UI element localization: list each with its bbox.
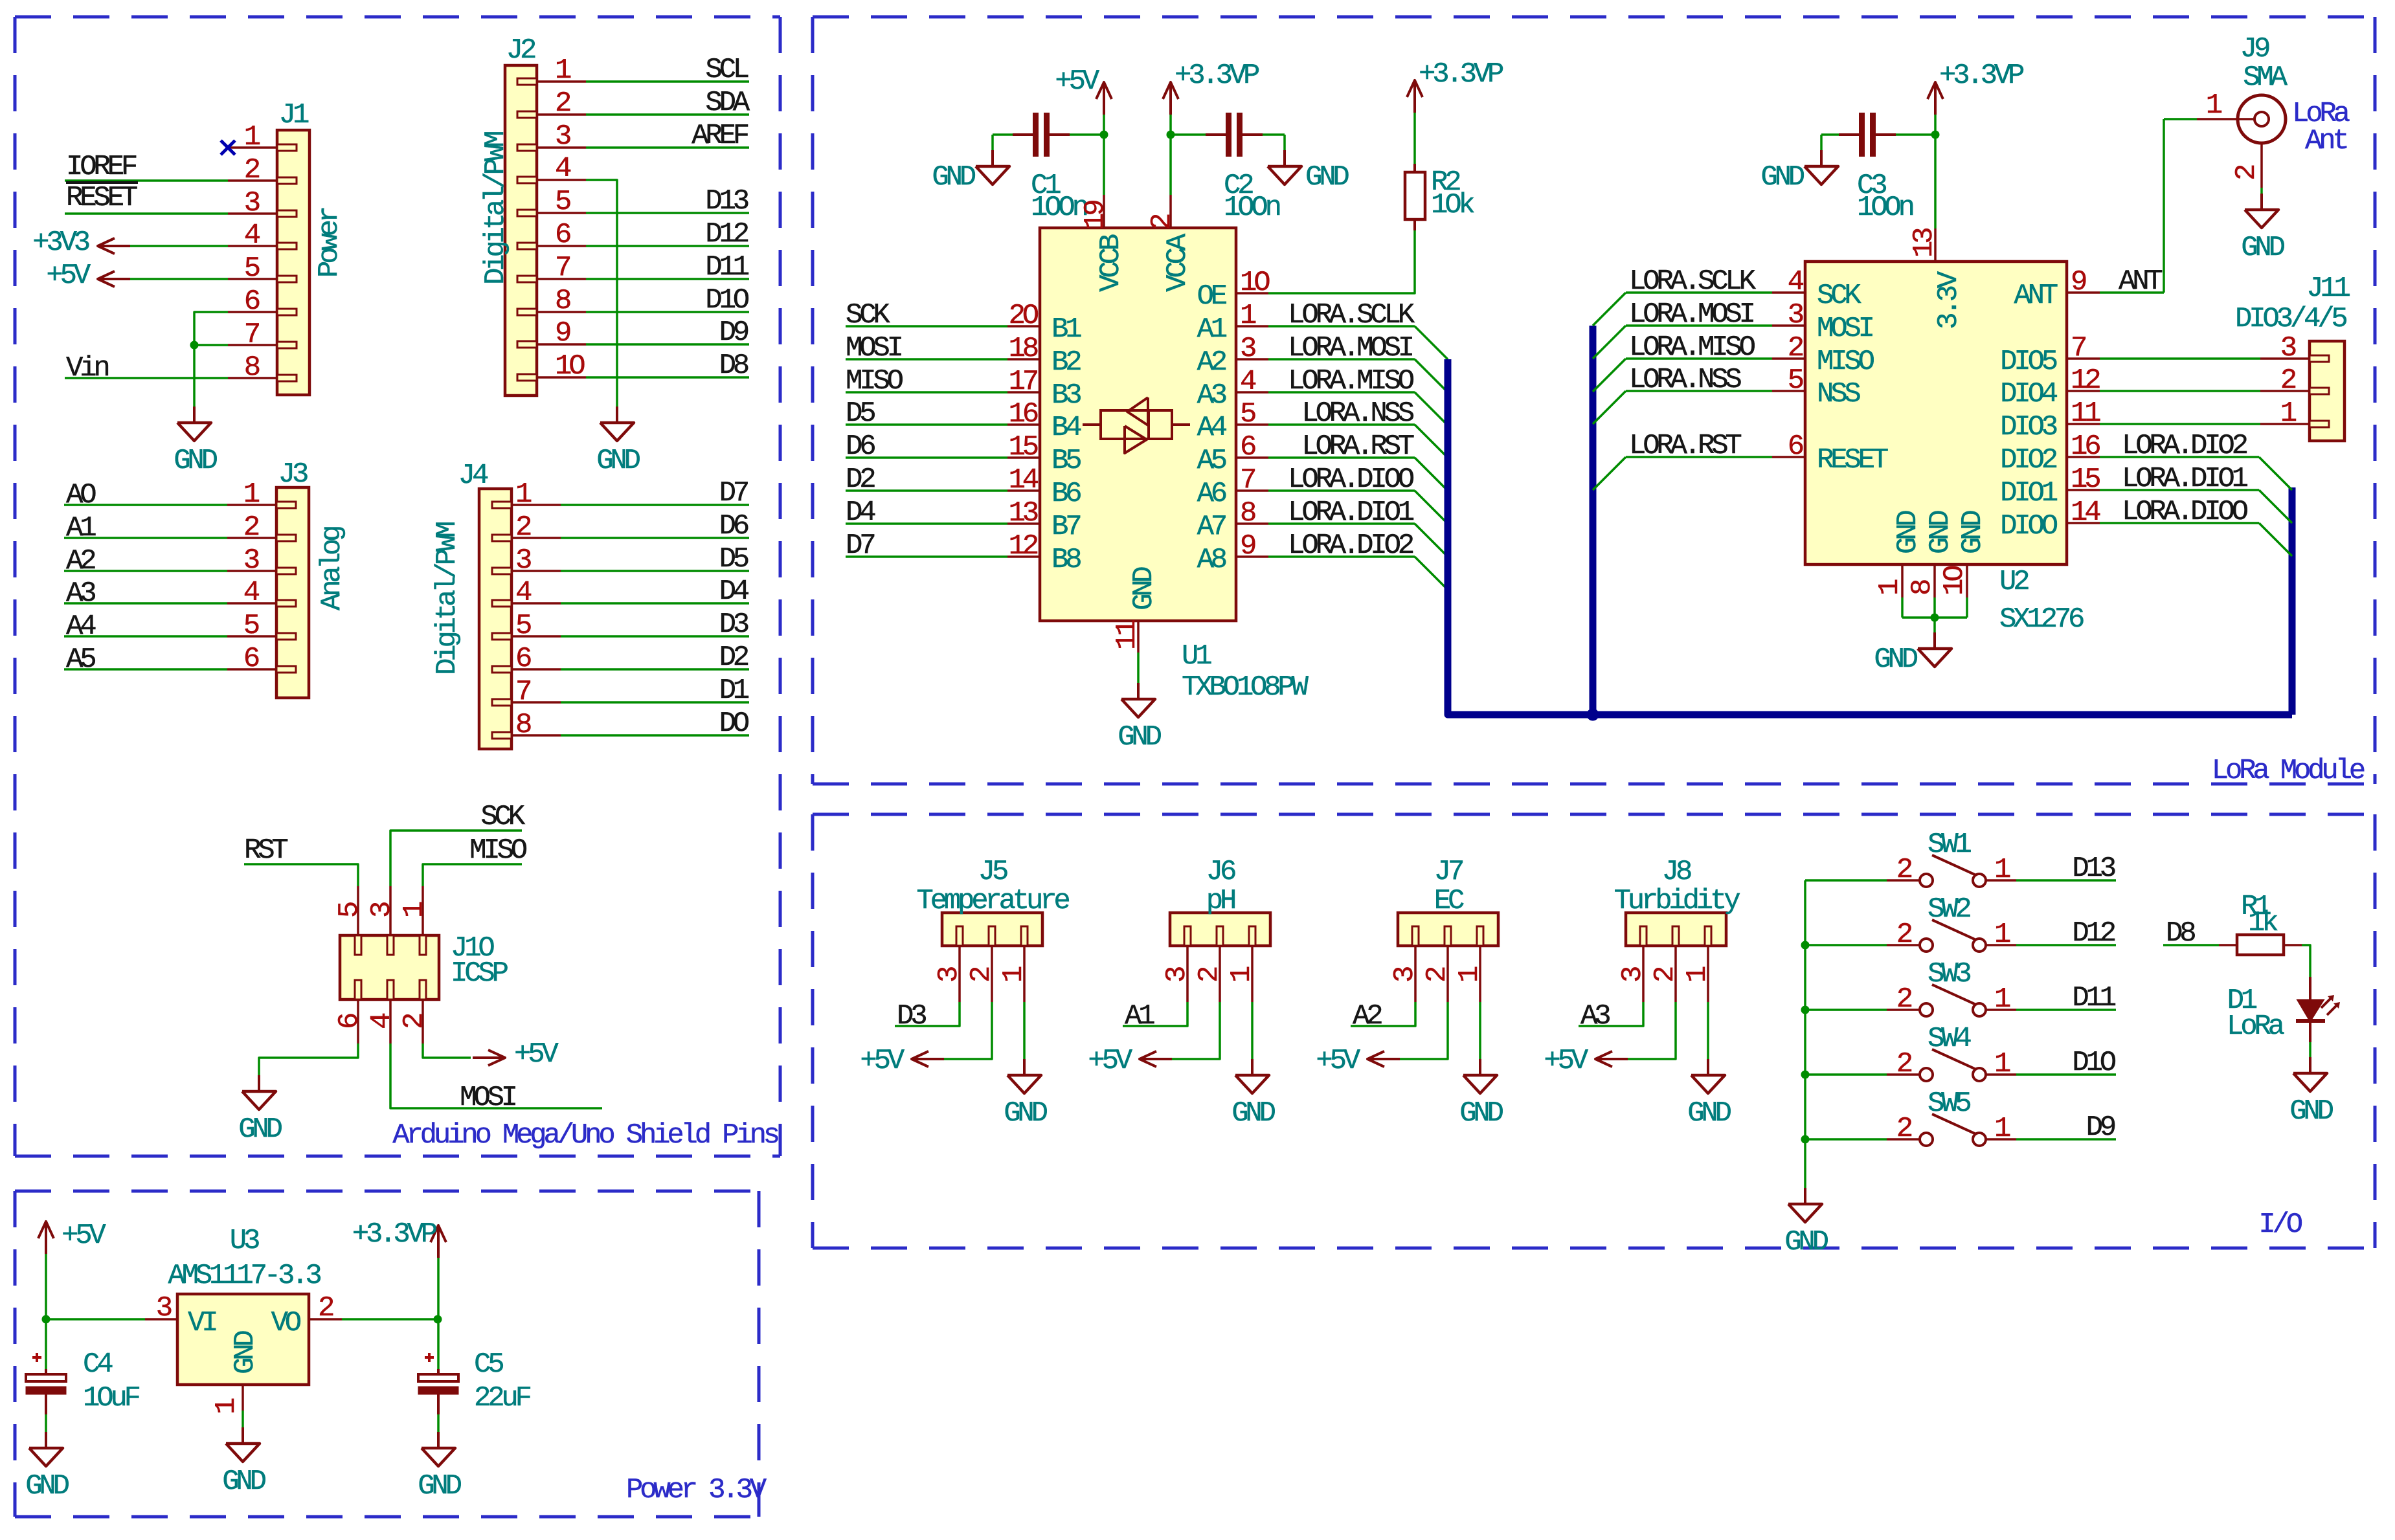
svg-text:SW3: SW3: [1928, 958, 1970, 990]
svg-text:GND: GND: [418, 1470, 461, 1502]
svg-text:3: 3: [243, 544, 259, 577]
svg-text:pH: pH: [1206, 885, 1235, 917]
svg-text:3: 3: [515, 544, 531, 577]
svg-text:6: 6: [244, 285, 260, 318]
svg-text:1OOn: 1OOn: [1857, 192, 1913, 224]
svg-text:2: 2: [2231, 165, 2263, 181]
svg-text:+5V: +5V: [1316, 1045, 1360, 1077]
svg-text:B1: B1: [1051, 313, 1081, 346]
svg-text:6: 6: [1240, 431, 1255, 463]
svg-text:MOSI: MOSI: [846, 332, 902, 364]
svg-text:D11: D11: [2072, 982, 2115, 1014]
svg-text:A1: A1: [1125, 1000, 1154, 1032]
svg-text:LORA.DIO2: LORA.DIO2: [2122, 430, 2247, 462]
svg-text:DIO1: DIO1: [2000, 477, 2058, 509]
svg-text:Power 3.3V: Power 3.3V: [626, 1474, 767, 1506]
svg-text:DIO4: DIO4: [2000, 378, 2058, 410]
svg-text:A7: A7: [1197, 511, 1226, 543]
svg-text:LORA.DIO1: LORA.DIO1: [1288, 497, 1414, 529]
svg-text:GND: GND: [1760, 161, 1804, 194]
svg-text:A2: A2: [1197, 346, 1226, 379]
svg-text:2: 2: [1421, 967, 1454, 983]
svg-text:GND: GND: [25, 1470, 69, 1502]
svg-text:LORA.MOSI: LORA.MOSI: [1288, 332, 1413, 364]
svg-text:5: 5: [333, 902, 366, 918]
svg-text:TXBO1O8PW: TXBO1O8PW: [1182, 671, 1309, 704]
svg-text:3: 3: [2280, 332, 2296, 364]
svg-text:GND: GND: [1957, 511, 1989, 554]
svg-text:SCK: SCK: [1817, 280, 1861, 312]
svg-text:A3: A3: [66, 577, 95, 610]
svg-text:2: 2: [1896, 983, 1912, 1016]
svg-text:+5V: +5V: [1055, 65, 1099, 98]
svg-text:ANT: ANT: [2119, 265, 2162, 298]
svg-text:+5V: +5V: [46, 260, 91, 292]
svg-text:D4: D4: [719, 575, 749, 608]
svg-text:GND: GND: [238, 1113, 282, 1146]
svg-text:2: 2: [243, 511, 259, 544]
svg-text:DO: DO: [719, 708, 749, 740]
svg-text:2: 2: [965, 967, 998, 983]
svg-text:D2: D2: [846, 463, 875, 496]
svg-text:D7: D7: [719, 477, 748, 509]
svg-text:+5V: +5V: [1544, 1045, 1588, 1077]
svg-text:+3.3VP: +3.3VP: [1939, 60, 2024, 92]
svg-text:A1: A1: [66, 512, 96, 544]
svg-text:U3: U3: [230, 1225, 259, 1257]
svg-text:SW4: SW4: [1928, 1023, 1971, 1055]
svg-text:15: 15: [2071, 463, 2100, 496]
svg-text:GND: GND: [2241, 232, 2284, 264]
svg-text:GND: GND: [2289, 1095, 2333, 1128]
svg-text:J3: J3: [278, 458, 308, 491]
svg-text:13: 13: [1009, 497, 1038, 530]
svg-text:3: 3: [244, 187, 260, 219]
svg-text:+3V3: +3V3: [32, 227, 89, 259]
svg-text:3: 3: [1240, 333, 1255, 365]
svg-text:7: 7: [244, 318, 259, 351]
svg-text:1OOn: 1OOn: [1224, 192, 1280, 224]
svg-text:16: 16: [1009, 398, 1038, 430]
svg-text:RST: RST: [244, 834, 287, 867]
svg-text:3: 3: [555, 120, 570, 153]
svg-text:5: 5: [555, 186, 570, 218]
svg-text:MISO: MISO: [846, 365, 903, 397]
svg-text:GND: GND: [174, 445, 217, 477]
svg-text:C5: C5: [474, 1348, 503, 1381]
svg-text:3: 3: [933, 967, 965, 983]
svg-text:GND: GND: [1687, 1097, 1731, 1130]
svg-text:2: 2: [2280, 364, 2296, 397]
svg-text:7: 7: [515, 676, 530, 708]
svg-text:Power: Power: [313, 208, 346, 278]
svg-text:8: 8: [515, 709, 531, 741]
svg-text:GND: GND: [1118, 721, 1161, 753]
svg-text:NSS: NSS: [1817, 378, 1860, 410]
svg-text:SW2: SW2: [1928, 893, 1970, 926]
svg-text:LoRa: LoRa: [2227, 1010, 2284, 1043]
svg-text:VI: VI: [188, 1307, 216, 1339]
svg-text:2: 2: [1896, 1113, 1912, 1145]
svg-text:J6: J6: [1206, 856, 1235, 888]
svg-text:DIO2: DIO2: [2000, 444, 2057, 476]
svg-text:2: 2: [1193, 967, 1226, 983]
svg-text:RESET: RESET: [1817, 444, 1888, 476]
svg-text:J8: J8: [1662, 856, 1691, 888]
svg-text:J9: J9: [2240, 33, 2269, 65]
svg-text:GND: GND: [1459, 1097, 1503, 1130]
svg-text:D8: D8: [719, 350, 748, 382]
svg-text:LORA.NSS: LORA.NSS: [1629, 364, 1741, 396]
svg-text:MISO: MISO: [469, 834, 527, 867]
svg-text:GND: GND: [222, 1466, 265, 1498]
svg-text:9: 9: [555, 317, 570, 350]
svg-text:17: 17: [1009, 366, 1037, 398]
svg-text:MISO: MISO: [1817, 346, 1874, 378]
svg-text:GND: GND: [1305, 161, 1349, 194]
svg-text:D5: D5: [846, 397, 875, 430]
svg-text:GND: GND: [1128, 567, 1160, 610]
svg-text:2O: 2O: [1009, 300, 1039, 332]
svg-text:Temperature: Temperature: [916, 885, 1069, 917]
svg-text:LORA.DIO2: LORA.DIO2: [1288, 530, 1413, 562]
svg-text:A2: A2: [66, 545, 95, 577]
svg-text:A5: A5: [1197, 445, 1226, 477]
svg-text:1O: 1O: [555, 350, 585, 383]
svg-text:12: 12: [1009, 530, 1038, 563]
svg-text:1k: 1k: [2248, 907, 2278, 939]
svg-text:18: 18: [1009, 333, 1038, 365]
svg-text:SCK: SCK: [480, 801, 525, 833]
svg-text:VCCA: VCCA: [1162, 233, 1194, 292]
svg-text:DIOO: DIOO: [2000, 510, 2058, 542]
svg-text:A3: A3: [1580, 1000, 1610, 1032]
svg-text:7: 7: [1240, 464, 1255, 497]
svg-text:GND: GND: [1231, 1097, 1275, 1130]
svg-text:22uF: 22uF: [474, 1382, 531, 1414]
svg-text:AMS1117-3.3: AMS1117-3.3: [168, 1260, 320, 1292]
svg-text:1OuF: 1OuF: [83, 1382, 140, 1414]
svg-text:A1: A1: [1197, 313, 1227, 346]
svg-text:2: 2: [1649, 967, 1681, 983]
svg-text:2: 2: [244, 154, 260, 186]
svg-text:D3: D3: [719, 608, 748, 641]
svg-text:+3.3VP: +3.3VP: [1175, 60, 1259, 92]
svg-text:D2: D2: [719, 642, 748, 674]
svg-text:GND: GND: [1784, 1226, 1828, 1258]
svg-text:SW5: SW5: [1928, 1088, 1970, 1120]
svg-text:LORA.RST: LORA.RST: [1301, 430, 1413, 463]
svg-text:I/O: I/O: [2258, 1209, 2302, 1241]
svg-text:11: 11: [1111, 620, 1143, 650]
svg-text:D6: D6: [846, 430, 875, 463]
svg-text:B8: B8: [1051, 544, 1081, 576]
svg-text:B4: B4: [1051, 412, 1081, 444]
svg-text:LORA.DIO1: LORA.DIO1: [2122, 463, 2248, 495]
svg-text:3: 3: [1161, 967, 1193, 983]
svg-text:5: 5: [243, 610, 259, 642]
svg-text:DIO3/4/5: DIO3/4/5: [2235, 303, 2346, 335]
svg-text:C4: C4: [83, 1348, 113, 1381]
svg-text:Vin: Vin: [66, 352, 108, 385]
svg-text:GND: GND: [1004, 1097, 1047, 1130]
svg-text:MOSI: MOSI: [1817, 313, 1873, 345]
svg-text:3: 3: [1389, 967, 1421, 983]
svg-text:EC: EC: [1434, 885, 1464, 917]
svg-text:13: 13: [1908, 229, 1940, 258]
svg-text:SX1276: SX1276: [1999, 603, 2084, 636]
svg-text:SW1: SW1: [1928, 829, 1971, 861]
svg-text:Analog: Analog: [316, 527, 348, 610]
svg-text:+5V: +5V: [514, 1038, 559, 1071]
svg-text:B3: B3: [1051, 379, 1081, 412]
svg-text:A4: A4: [1197, 412, 1227, 444]
svg-text:3: 3: [366, 902, 398, 918]
svg-text:A4: A4: [66, 610, 96, 643]
svg-text:2: 2: [1896, 1048, 1912, 1080]
svg-text:2: 2: [1896, 919, 1912, 951]
svg-text:8: 8: [1906, 580, 1939, 596]
svg-text:A2: A2: [1353, 1000, 1382, 1032]
svg-text:GND: GND: [1924, 511, 1957, 554]
svg-text:6: 6: [555, 219, 570, 251]
svg-text:1O: 1O: [1939, 566, 1971, 596]
svg-text:D13: D13: [2072, 853, 2115, 885]
svg-text:+3.3VP: +3.3VP: [1419, 58, 1503, 91]
svg-text:7: 7: [555, 252, 570, 284]
svg-text:OE: OE: [1197, 280, 1227, 313]
svg-text:J7: J7: [1434, 856, 1463, 888]
svg-text:9: 9: [2071, 266, 2086, 298]
svg-text:3.3V: 3.3V: [1933, 271, 1965, 329]
svg-text:+5V: +5V: [1088, 1045, 1132, 1077]
svg-text:B2: B2: [1051, 346, 1081, 379]
svg-text:SCL: SCL: [705, 54, 748, 86]
svg-text:16: 16: [2071, 430, 2100, 463]
svg-text:8: 8: [1240, 497, 1255, 530]
svg-text:D9: D9: [719, 317, 748, 349]
svg-text:8: 8: [555, 285, 570, 317]
svg-text:SCK: SCK: [846, 299, 890, 331]
svg-text:GND: GND: [1874, 643, 1917, 676]
svg-text:MOSI: MOSI: [460, 1082, 516, 1114]
svg-text:3: 3: [156, 1292, 172, 1324]
svg-text:DIO3: DIO3: [2000, 411, 2057, 443]
svg-text:J11: J11: [2306, 273, 2350, 305]
svg-text:LORA.RST: LORA.RST: [1629, 430, 1741, 462]
svg-text:6: 6: [333, 1014, 366, 1029]
svg-text:D13: D13: [705, 185, 748, 218]
svg-text:D9: D9: [2086, 1111, 2115, 1144]
svg-text:A3: A3: [1197, 379, 1226, 412]
svg-text:GND: GND: [596, 445, 640, 477]
svg-text:3: 3: [1788, 299, 1803, 331]
svg-text:Digital/PWM: Digital/PWM: [431, 522, 464, 675]
svg-text:B5: B5: [1051, 445, 1081, 477]
svg-text:D12: D12: [705, 218, 748, 251]
svg-text:Ant: Ant: [2305, 125, 2346, 157]
svg-text:Turbidity: Turbidity: [1614, 885, 1740, 917]
svg-text:11: 11: [2071, 397, 2100, 430]
svg-text:5: 5: [1240, 398, 1255, 430]
svg-text:2: 2: [1896, 854, 1912, 886]
svg-text:2: 2: [1788, 332, 1803, 364]
svg-text:6: 6: [243, 643, 259, 675]
svg-text:1O: 1O: [1240, 267, 1270, 299]
svg-text:A8: A8: [1197, 544, 1226, 576]
svg-text:J1: J1: [279, 99, 309, 131]
svg-text:12: 12: [2071, 364, 2100, 397]
svg-text:ICSP: ICSP: [451, 957, 508, 990]
svg-text:2: 2: [398, 1014, 431, 1029]
svg-text:J4: J4: [458, 460, 488, 492]
svg-text:9: 9: [1240, 530, 1255, 563]
svg-text:LORA.MOSI: LORA.MOSI: [1629, 298, 1754, 331]
svg-text:5: 5: [515, 610, 531, 642]
svg-text:B7: B7: [1051, 511, 1080, 543]
svg-text:2: 2: [1146, 214, 1178, 230]
svg-text:LORA.MISO: LORA.MISO: [1288, 365, 1414, 397]
svg-text:VO: VO: [271, 1307, 301, 1339]
svg-text:A5: A5: [66, 643, 95, 676]
svg-text:D5: D5: [719, 543, 748, 575]
svg-text:A6: A6: [1197, 478, 1226, 510]
svg-text:D12: D12: [2072, 917, 2115, 950]
svg-text:19: 19: [1079, 201, 1112, 230]
svg-text:14: 14: [1009, 464, 1039, 497]
svg-text:D7: D7: [846, 530, 874, 562]
svg-text:14: 14: [2071, 497, 2100, 529]
svg-text:IOREF: IOREF: [66, 151, 137, 183]
svg-text:LORA.SCLK: LORA.SCLK: [1629, 265, 1757, 298]
svg-text:AREF: AREF: [692, 120, 748, 152]
svg-text:3: 3: [1617, 967, 1649, 983]
svg-text:J2: J2: [506, 34, 535, 67]
svg-text:LoRa Module: LoRa Module: [2212, 755, 2365, 787]
svg-text:LORA.MISO: LORA.MISO: [1629, 331, 1755, 364]
svg-text:LORA.DIOO: LORA.DIOO: [1288, 463, 1414, 496]
svg-text:J5: J5: [978, 856, 1007, 888]
svg-text:D6: D6: [719, 510, 748, 542]
svg-text:GND: GND: [932, 161, 975, 194]
svg-text:8: 8: [244, 352, 260, 384]
svg-text:U1: U1: [1182, 640, 1211, 673]
svg-text:LORA.DIOO: LORA.DIOO: [2122, 496, 2248, 528]
svg-text:1OOn: 1OOn: [1031, 192, 1087, 224]
svg-text:LORA.SCLK: LORA.SCLK: [1288, 299, 1415, 331]
svg-text:+5V: +5V: [860, 1045, 905, 1077]
svg-text:B6: B6: [1051, 478, 1081, 510]
svg-text:VCCB: VCCB: [1095, 234, 1127, 292]
svg-text:SDA: SDA: [705, 87, 750, 119]
svg-text:+3.3VP: +3.3VP: [352, 1218, 437, 1251]
svg-text:SMA: SMA: [2243, 61, 2288, 94]
svg-text:+5V: +5V: [62, 1220, 106, 1252]
svg-text:RESET: RESET: [66, 182, 137, 214]
svg-text:5: 5: [244, 252, 260, 285]
svg-text:LORA.NSS: LORA.NSS: [1301, 397, 1413, 430]
svg-text:D3: D3: [897, 1000, 926, 1032]
svg-text:GND: GND: [1892, 511, 1924, 554]
svg-text:6: 6: [515, 643, 531, 675]
svg-text:1Ok: 1Ok: [1431, 189, 1474, 221]
svg-text:5: 5: [1788, 364, 1803, 397]
svg-text:Digital/PWM: Digital/PWM: [480, 132, 512, 285]
svg-text:D4: D4: [846, 497, 875, 529]
svg-text:2: 2: [555, 87, 570, 120]
svg-text:2: 2: [318, 1292, 333, 1324]
svg-text:DIO5: DIO5: [2000, 346, 2057, 378]
svg-text:D1: D1: [719, 675, 749, 707]
svg-text:D1O: D1O: [2072, 1047, 2115, 1079]
svg-text:ANT: ANT: [2014, 280, 2057, 312]
svg-text:7: 7: [2071, 332, 2086, 364]
svg-text:AO: AO: [66, 479, 96, 511]
svg-text:Arduino Mega/Uno Shield Pins: Arduino Mega/Uno Shield Pins: [392, 1119, 778, 1152]
svg-text:2: 2: [515, 511, 531, 544]
svg-text:6: 6: [1788, 430, 1803, 463]
svg-text:D11: D11: [705, 251, 748, 284]
svg-text:15: 15: [1009, 431, 1038, 463]
svg-text:D1O: D1O: [705, 284, 748, 317]
svg-text:GND: GND: [229, 1331, 262, 1374]
svg-text:U2: U2: [1999, 566, 2029, 598]
